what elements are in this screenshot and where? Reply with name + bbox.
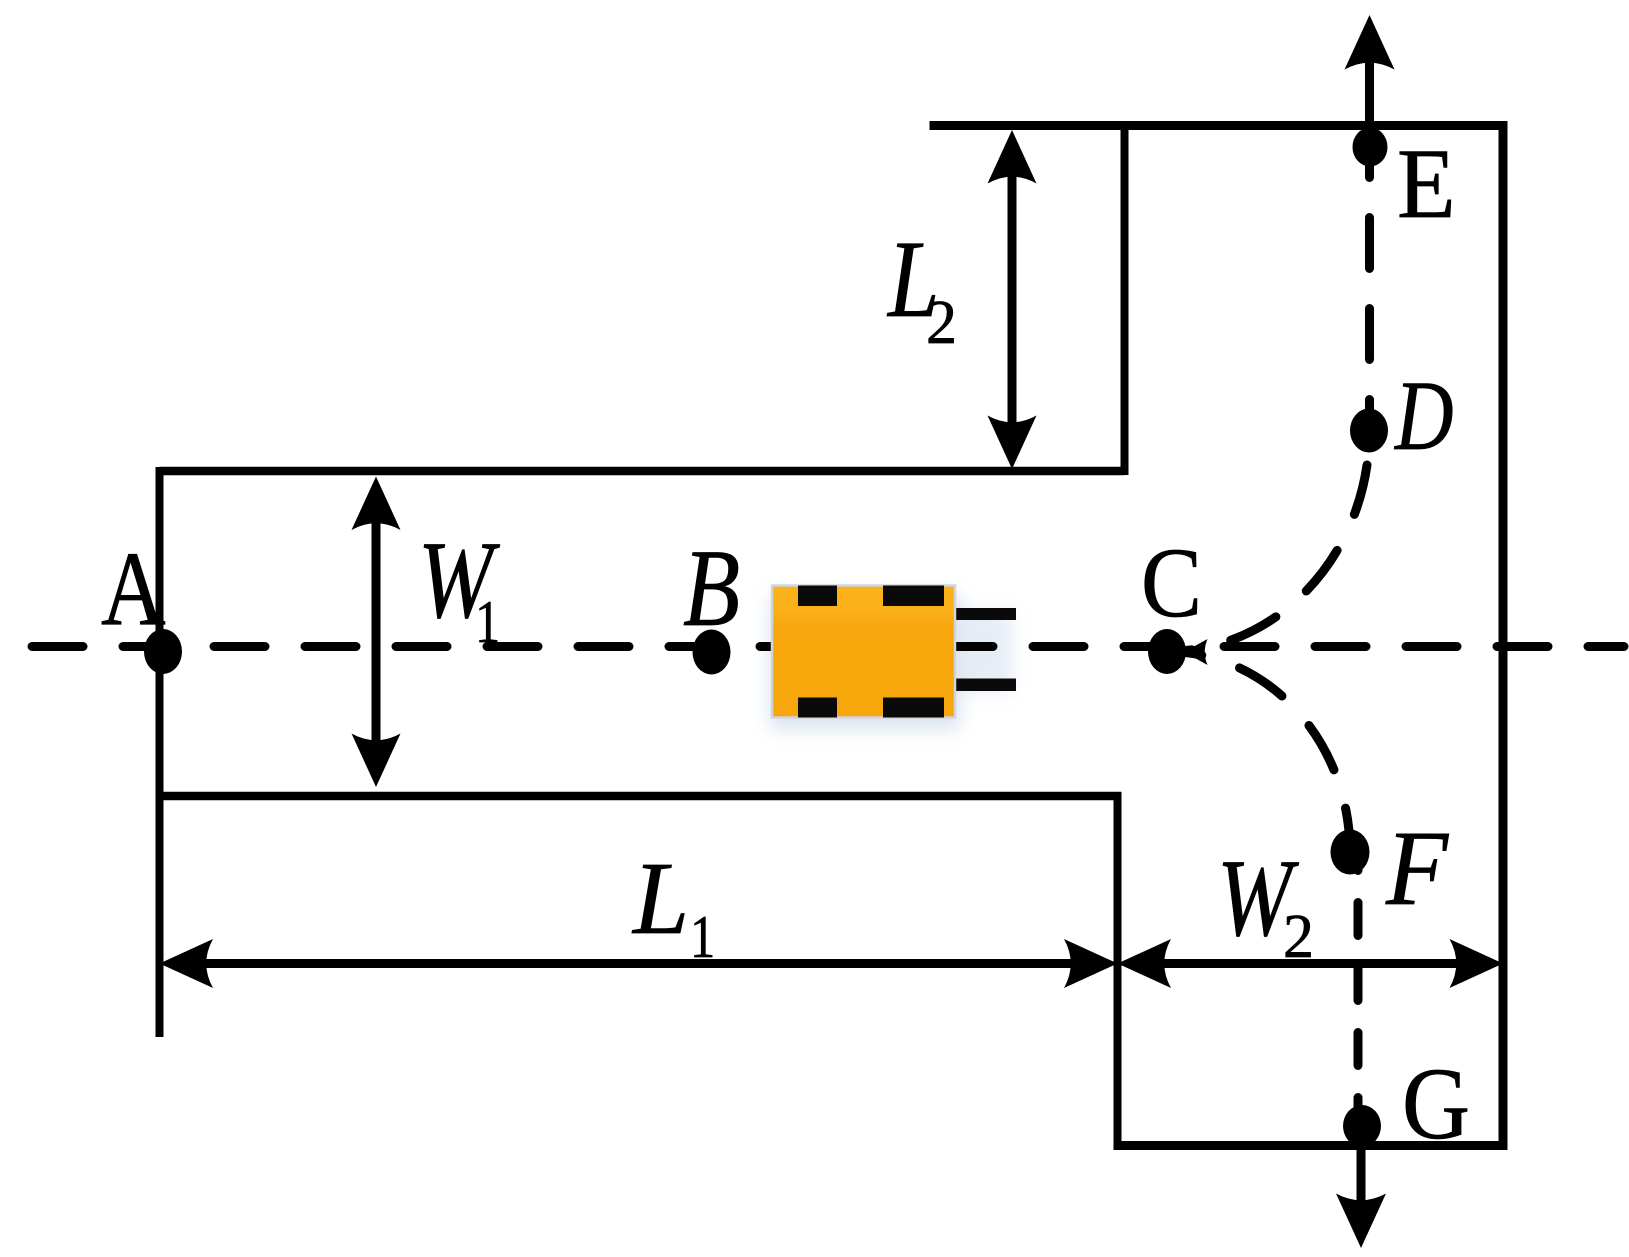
road edge: bottom edge of horizontal corridor [160, 792, 1122, 801]
node D dot [1350, 409, 1388, 453]
road edge: left vertical boundary at A (with L1 extension) [156, 467, 164, 1037]
node F dot [1331, 830, 1370, 875]
svg-text:2: 2 [1283, 903, 1314, 971]
dimension L1 arrowhead left [160, 939, 214, 988]
node C dot [1148, 629, 1186, 674]
svg-text:F: F [1385, 809, 1449, 928]
road edge: top edge of horizontal corridor [160, 467, 1125, 476]
wire: dashed arc from C to D [1167, 431, 1370, 652]
road edge: right edge of vertical road [1499, 121, 1508, 1150]
dimension L2 arrowhead down [988, 416, 1037, 470]
wire: dashed arc from C to F [1167, 652, 1350, 853]
svg-text:G: G [1402, 1047, 1470, 1161]
dimension L1 arrowhead right [1064, 939, 1118, 988]
svg-text:L: L [631, 842, 689, 957]
vehicle wheel bottom-left [798, 698, 837, 718]
node E dot [1353, 128, 1388, 167]
dimension L1 line [200, 959, 1080, 968]
dimension L2 double arrow shaft [1008, 170, 1017, 430]
dimension W2 arrowhead right [1450, 939, 1504, 988]
vehicle fork bottom [950, 679, 1016, 692]
exit arrow down below G [1357, 1126, 1366, 1218]
vehicle body (AGV) [772, 586, 955, 718]
exit arrow up above E [1365, 45, 1374, 148]
node G dot [1343, 1105, 1381, 1147]
vehicle wheel bottom-right [883, 698, 944, 718]
road edge: left edge of upper vertical road [1121, 122, 1129, 476]
svg-text:1: 1 [690, 904, 715, 970]
road edge: top boundary line of upper vertical road (with L2 extension) [930, 121, 1507, 130]
svg-text:E: E [1397, 129, 1456, 239]
vehicle drop shadow [770, 594, 960, 730]
dimension W1 arrowhead up [352, 477, 401, 531]
svg-text:2: 2 [926, 289, 957, 357]
vehicle wheel top-left [798, 586, 837, 607]
dimension W2 arrowhead left [1118, 939, 1172, 988]
svg-text:D: D [1393, 360, 1453, 471]
vehicle fork top [950, 608, 1016, 620]
wire: horizontal dashed centerline through A, B, C [32, 642, 1183, 651]
svg-text:C: C [1141, 527, 1202, 638]
dimension W1 arrowhead down [352, 734, 401, 788]
svg-text:1: 1 [475, 589, 500, 655]
svg-text:A: A [101, 531, 166, 648]
node A dot [144, 629, 182, 674]
wire: vertical dashed centerline from E to D [1365, 148, 1374, 430]
node B dot [693, 630, 731, 675]
dimension W2 line [1158, 959, 1463, 968]
dimension L2 arrowhead up [988, 130, 1037, 184]
road edge: left edge of lower vertical road [1114, 792, 1122, 1150]
road edge: bottom boundary line of lower vertical road [1114, 1141, 1508, 1150]
vehicle wheel top-right [883, 586, 944, 607]
wire: vertical dashed centerline from F to G [1354, 852, 1363, 1126]
svg-text:B: B [683, 528, 740, 650]
dimension W1 double arrow shaft [372, 520, 381, 745]
node arrowhead at C pointing left [1184, 639, 1208, 665]
